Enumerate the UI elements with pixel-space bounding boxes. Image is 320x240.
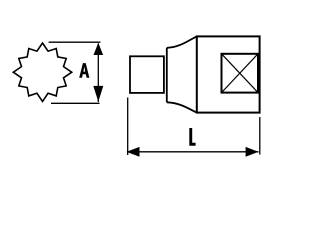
dimension A down arrowhead <box>93 86 103 102</box>
dimension L right arrowhead <box>246 147 259 157</box>
square drive hole with cross <box>222 54 259 93</box>
extension line bottom of dimension A <box>51 102 100 104</box>
socket neck left edge <box>166 48 168 103</box>
socket neck bottom flare curve <box>167 102 197 112</box>
socket drive end (small square shank) <box>130 56 164 93</box>
socket body rectangle <box>197 36 260 112</box>
dimension A vertical line <box>97 44 99 103</box>
12-point spline profile (end view) <box>13 43 71 101</box>
label A <box>79 63 89 78</box>
socket neck top flare curve <box>167 36 197 47</box>
extension line right of dimension L <box>259 117 261 155</box>
label L <box>189 128 195 146</box>
dimension L horizontal line <box>127 151 259 153</box>
drive hole diagonal 2 <box>222 54 259 93</box>
extension line left of dimension L <box>127 98 129 156</box>
dimension L left arrowhead <box>127 147 140 157</box>
dimension A up arrowhead <box>94 43 104 55</box>
extension line top of dimension A <box>49 41 101 43</box>
drive hole diagonal 1 <box>222 54 259 93</box>
